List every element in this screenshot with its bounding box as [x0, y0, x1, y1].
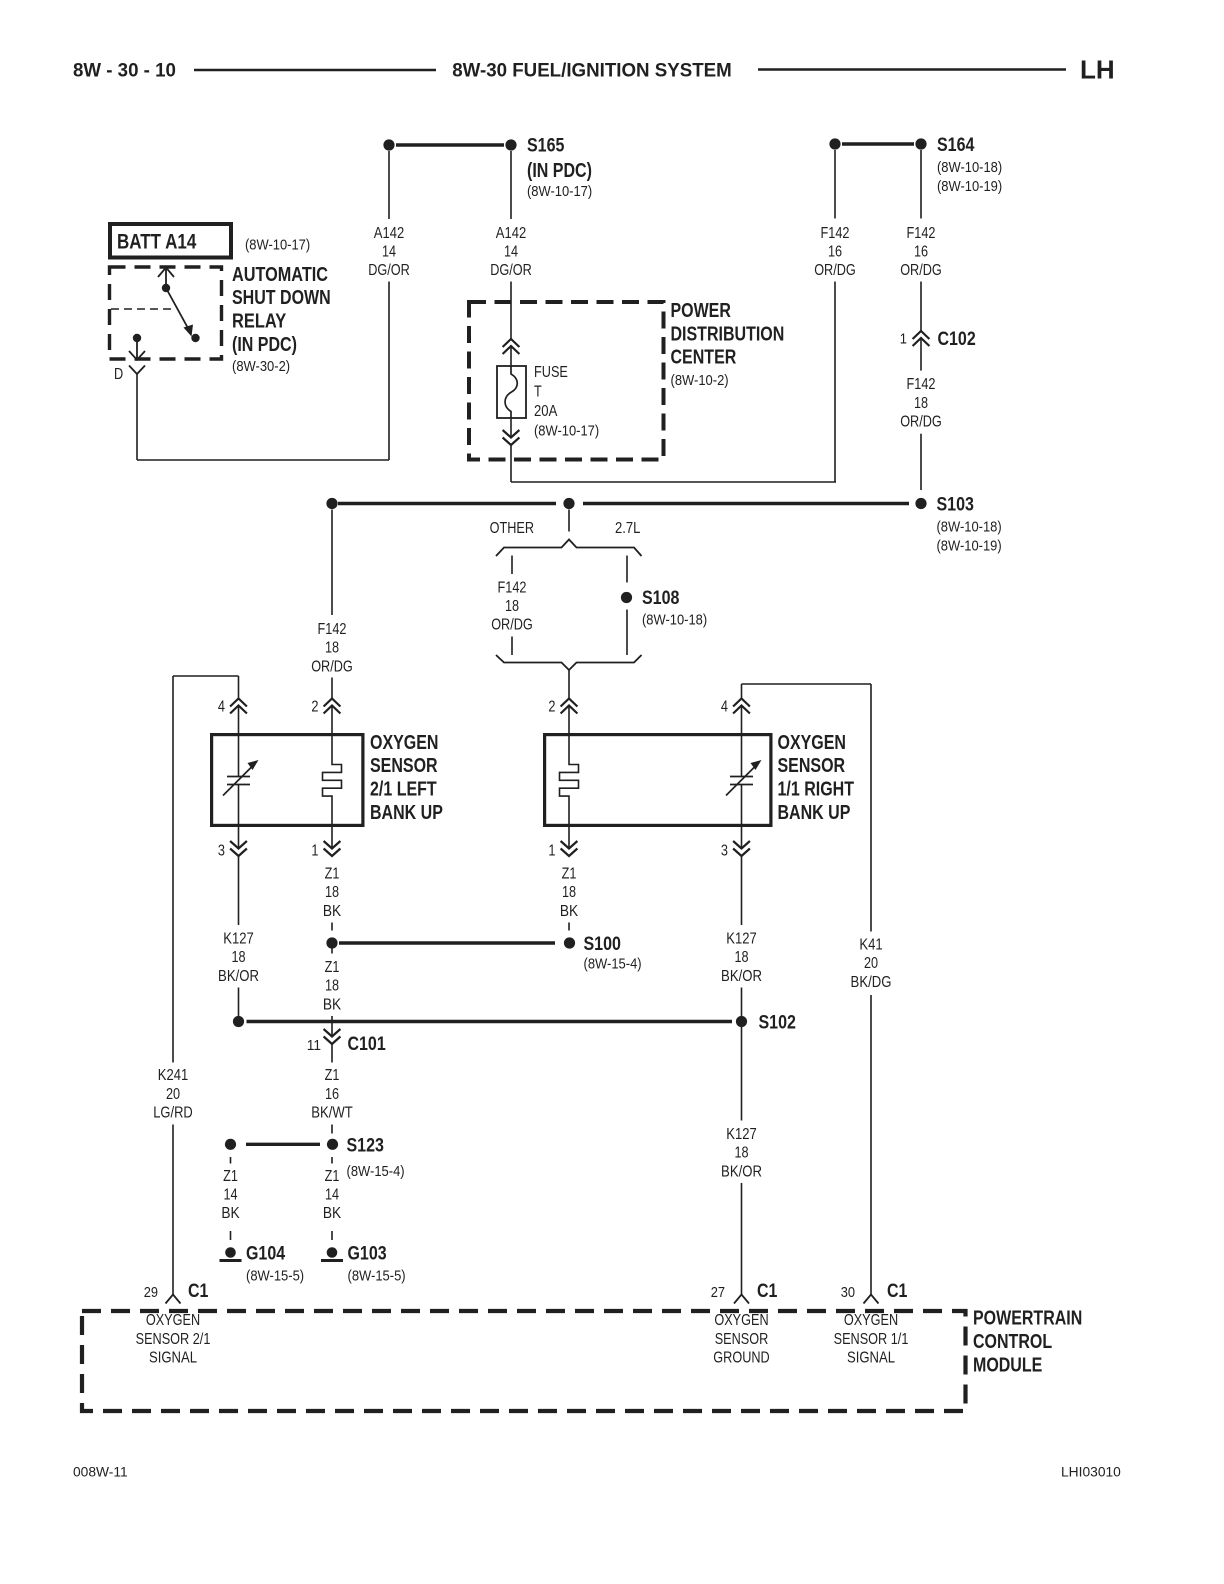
svg-text:Z1: Z1 — [562, 865, 577, 882]
svg-text:(8W-15-4): (8W-15-4) — [347, 1164, 405, 1180]
svg-text:Z1: Z1 — [325, 1168, 340, 1185]
svg-text:BATT A14: BATT A14 — [117, 230, 196, 254]
svg-text:K41: K41 — [859, 936, 882, 953]
svg-text:POWERTRAIN: POWERTRAIN — [973, 1308, 1082, 1330]
svg-text:BANK UP: BANK UP — [370, 802, 443, 824]
svg-text:8W - 30 - 10: 8W - 30 - 10 — [73, 59, 176, 81]
svg-text:(8W-10-19): (8W-10-19) — [937, 179, 1002, 195]
svg-text:27: 27 — [711, 1285, 725, 1301]
svg-text:1/1 RIGHT: 1/1 RIGHT — [778, 779, 855, 801]
svg-text:OXYGEN: OXYGEN — [146, 1312, 200, 1329]
svg-text:(8W-10-17): (8W-10-17) — [534, 424, 599, 440]
svg-text:C1: C1 — [188, 1281, 209, 1302]
svg-text:OTHER: OTHER — [490, 520, 534, 537]
svg-text:8W-30 FUEL/IGNITION SYSTEM: 8W-30 FUEL/IGNITION SYSTEM — [452, 59, 732, 81]
svg-text:OXYGEN: OXYGEN — [844, 1312, 898, 1329]
svg-text:Z1: Z1 — [223, 1168, 238, 1185]
svg-text:C101: C101 — [348, 1034, 387, 1055]
svg-text:DG/OR: DG/OR — [368, 262, 410, 279]
svg-text:(IN PDC): (IN PDC) — [232, 334, 297, 356]
svg-text:(8W-15-5): (8W-15-5) — [348, 1268, 406, 1284]
svg-text:S102: S102 — [759, 1013, 796, 1034]
svg-text:BK: BK — [560, 903, 579, 920]
svg-text:BK/OR: BK/OR — [218, 968, 259, 985]
svg-text:CENTER: CENTER — [671, 347, 737, 369]
svg-text:2: 2 — [548, 699, 555, 716]
svg-text:S108: S108 — [642, 588, 679, 609]
svg-text:F142: F142 — [907, 225, 936, 242]
svg-text:14: 14 — [504, 244, 518, 261]
svg-text:BK/OR: BK/OR — [721, 968, 762, 985]
svg-text:14: 14 — [382, 244, 396, 261]
svg-text:S100: S100 — [584, 934, 621, 955]
svg-text:18: 18 — [505, 598, 519, 615]
svg-text:K127: K127 — [726, 931, 756, 948]
svg-text:SIGNAL: SIGNAL — [847, 1350, 895, 1367]
svg-text:SENSOR 2/1: SENSOR 2/1 — [136, 1331, 211, 1348]
svg-text:20A: 20A — [534, 403, 558, 420]
svg-text:(8W-10-17): (8W-10-17) — [245, 238, 310, 254]
svg-text:OR/DG: OR/DG — [900, 262, 942, 279]
svg-text:(8W-15-4): (8W-15-4) — [584, 957, 642, 973]
svg-text:2.7L: 2.7L — [615, 520, 640, 537]
svg-text:Z1: Z1 — [325, 865, 340, 882]
svg-text:GROUND: GROUND — [713, 1350, 769, 1367]
svg-text:OR/DG: OR/DG — [491, 617, 533, 634]
svg-text:18: 18 — [325, 640, 339, 657]
svg-text:Z1: Z1 — [325, 959, 340, 976]
svg-text:BK: BK — [221, 1205, 240, 1222]
svg-text:16: 16 — [325, 1086, 339, 1103]
svg-text:30: 30 — [841, 1285, 855, 1301]
svg-text:SIGNAL: SIGNAL — [149, 1350, 197, 1367]
svg-text:(8W-10-18): (8W-10-18) — [642, 613, 707, 629]
svg-text:4: 4 — [721, 699, 728, 716]
svg-text:SENSOR 1/1: SENSOR 1/1 — [834, 1331, 909, 1348]
svg-text:18: 18 — [325, 884, 339, 901]
svg-text:BK: BK — [323, 996, 342, 1013]
svg-text:S164: S164 — [937, 135, 975, 156]
svg-text:K241: K241 — [158, 1067, 188, 1084]
svg-text:D: D — [114, 366, 123, 383]
svg-text:18: 18 — [734, 1145, 748, 1162]
svg-text:18: 18 — [231, 949, 245, 966]
svg-text:FUSE: FUSE — [534, 364, 568, 381]
svg-text:S103: S103 — [937, 495, 974, 516]
svg-text:3: 3 — [721, 843, 728, 860]
svg-text:F142: F142 — [318, 621, 347, 638]
svg-text:LG/RD: LG/RD — [153, 1105, 193, 1122]
svg-text:G103: G103 — [348, 1243, 387, 1264]
svg-text:(8W-10-18): (8W-10-18) — [937, 160, 1002, 176]
svg-text:A142: A142 — [496, 225, 526, 242]
svg-text:DG/OR: DG/OR — [490, 262, 532, 279]
svg-text:K127: K127 — [726, 1126, 756, 1143]
svg-text:18: 18 — [734, 949, 748, 966]
svg-text:4: 4 — [218, 699, 225, 716]
svg-text:F142: F142 — [907, 376, 936, 393]
svg-text:BK/DG: BK/DG — [851, 974, 892, 991]
svg-text:DISTRIBUTION: DISTRIBUTION — [671, 323, 785, 345]
svg-text:BK: BK — [323, 1205, 342, 1222]
svg-text:C1: C1 — [887, 1281, 908, 1302]
svg-text:(8W-10-19): (8W-10-19) — [937, 538, 1002, 554]
svg-text:14: 14 — [325, 1187, 339, 1204]
svg-text:20: 20 — [166, 1086, 180, 1103]
svg-text:F142: F142 — [821, 225, 850, 242]
svg-text:SENSOR: SENSOR — [370, 755, 438, 777]
svg-text:(8W-10-18): (8W-10-18) — [937, 520, 1002, 536]
svg-text:RELAY: RELAY — [232, 311, 287, 333]
svg-text:(IN PDC): (IN PDC) — [527, 160, 592, 182]
svg-text:A142: A142 — [374, 225, 404, 242]
svg-text:11: 11 — [307, 1038, 321, 1054]
svg-text:S123: S123 — [347, 1135, 384, 1156]
svg-text:SENSOR: SENSOR — [778, 755, 846, 777]
svg-text:K127: K127 — [223, 931, 253, 948]
svg-text:Z1: Z1 — [325, 1067, 340, 1084]
svg-text:SHUT DOWN: SHUT DOWN — [232, 287, 331, 309]
svg-text:OR/DG: OR/DG — [311, 658, 353, 675]
svg-text:20: 20 — [864, 955, 878, 972]
svg-text:16: 16 — [914, 244, 928, 261]
svg-text:OXYGEN: OXYGEN — [714, 1312, 768, 1329]
svg-text:OXYGEN: OXYGEN — [778, 732, 847, 754]
svg-text:BK/OR: BK/OR — [721, 1163, 762, 1180]
svg-text:18: 18 — [562, 884, 576, 901]
svg-text:(8W-10-2): (8W-10-2) — [671, 373, 729, 389]
svg-text:3: 3 — [218, 843, 225, 860]
svg-text:LHI03010: LHI03010 — [1061, 1465, 1121, 1480]
svg-text:14: 14 — [223, 1187, 237, 1204]
svg-text:MODULE: MODULE — [973, 1355, 1042, 1377]
svg-text:1: 1 — [548, 843, 555, 860]
svg-text:T: T — [534, 384, 542, 401]
svg-text:F142: F142 — [498, 579, 527, 596]
svg-text:008W-11: 008W-11 — [73, 1465, 128, 1480]
svg-text:CONTROL: CONTROL — [973, 1331, 1052, 1353]
svg-text:OXYGEN: OXYGEN — [370, 732, 439, 754]
svg-text:16: 16 — [828, 244, 842, 261]
svg-text:LH: LH — [1080, 55, 1115, 85]
svg-text:2: 2 — [311, 699, 318, 716]
svg-text:G104: G104 — [246, 1243, 285, 1264]
svg-text:(8W-30-2): (8W-30-2) — [232, 359, 290, 375]
svg-text:1: 1 — [900, 332, 907, 348]
svg-text:18: 18 — [914, 395, 928, 412]
svg-text:BK/WT: BK/WT — [311, 1105, 353, 1122]
svg-text:OR/DG: OR/DG — [814, 262, 856, 279]
svg-text:SENSOR: SENSOR — [715, 1331, 769, 1348]
svg-text:29: 29 — [144, 1285, 158, 1301]
svg-text:AUTOMATIC: AUTOMATIC — [232, 264, 328, 286]
svg-text:C102: C102 — [938, 329, 976, 350]
svg-text:OR/DG: OR/DG — [900, 414, 942, 431]
svg-text:1: 1 — [311, 843, 318, 860]
svg-text:(8W-15-5): (8W-15-5) — [246, 1268, 304, 1284]
svg-text:2/1 LEFT: 2/1 LEFT — [370, 779, 437, 801]
svg-text:18: 18 — [325, 978, 339, 995]
svg-text:C1: C1 — [757, 1281, 778, 1302]
svg-text:BK: BK — [323, 903, 342, 920]
svg-text:BANK UP: BANK UP — [778, 802, 851, 824]
svg-text:POWER: POWER — [671, 300, 732, 322]
svg-text:S165: S165 — [527, 136, 565, 157]
svg-text:(8W-10-17): (8W-10-17) — [527, 184, 592, 200]
